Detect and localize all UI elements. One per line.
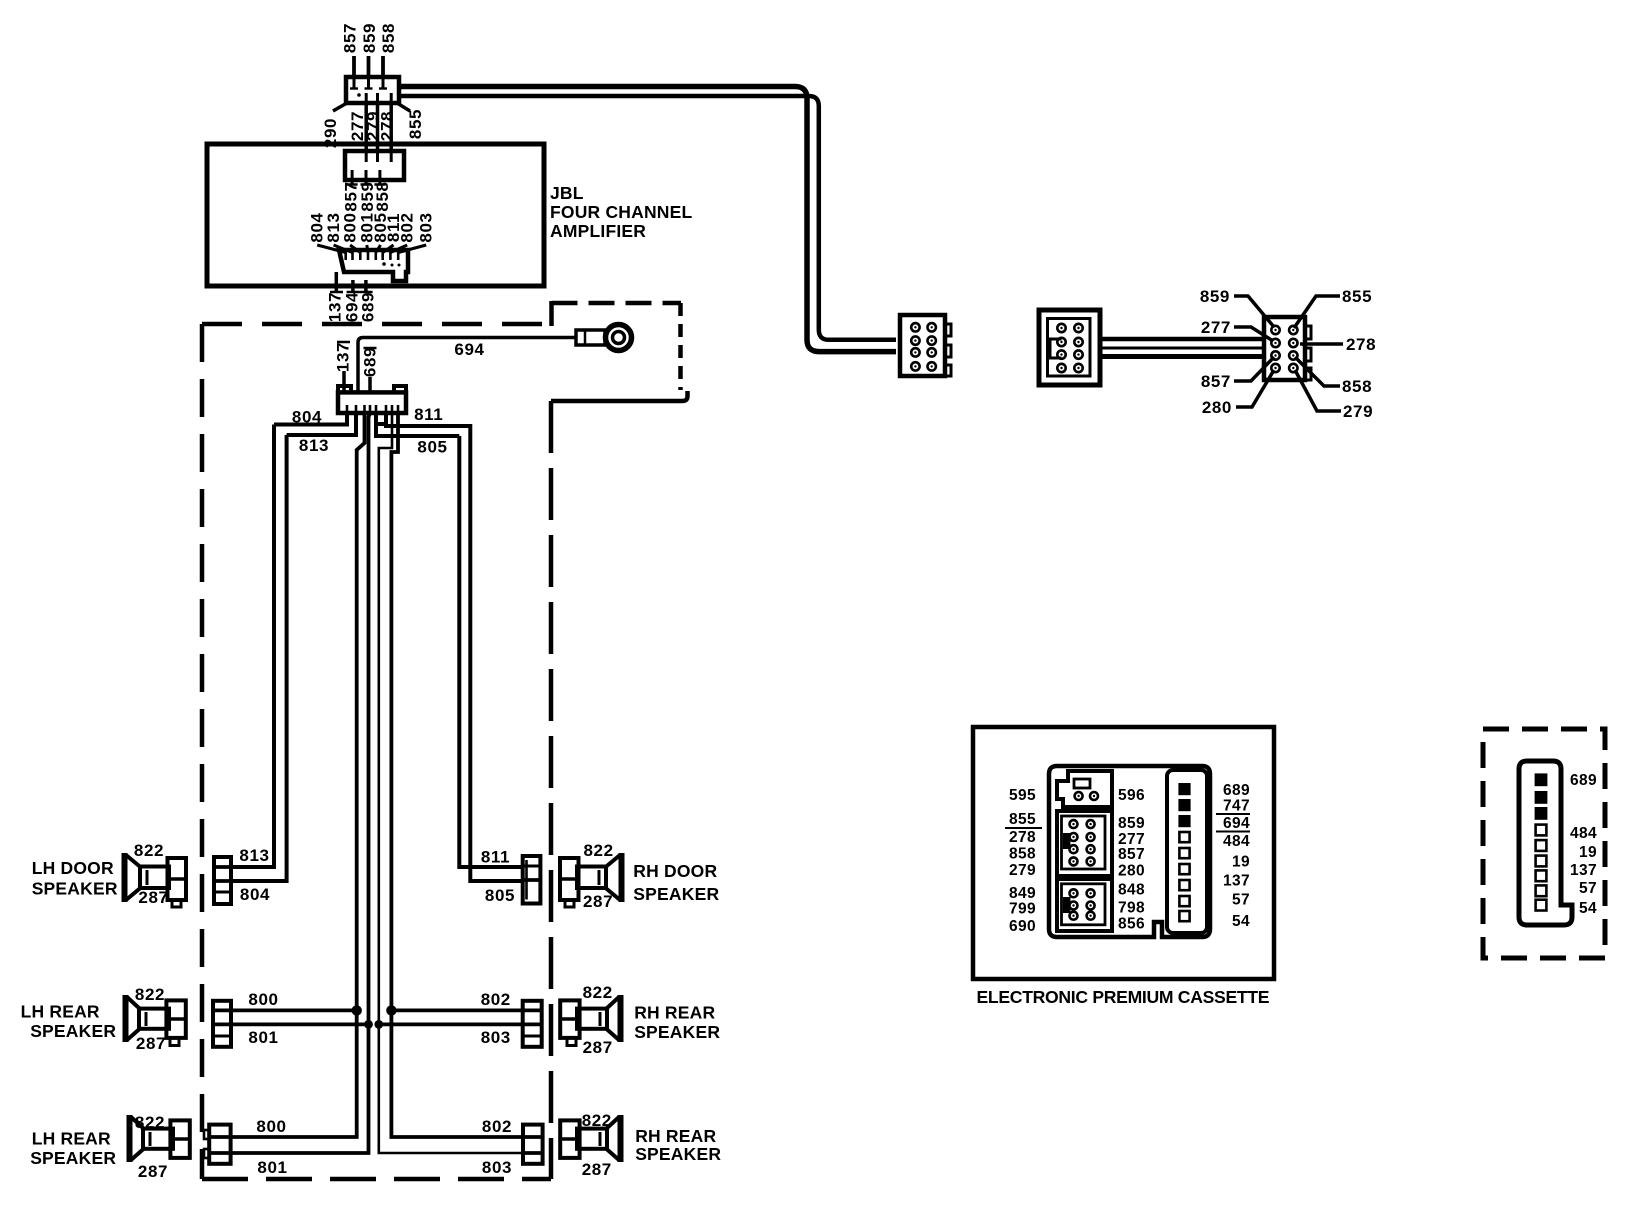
svg-text:RH DOOR: RH DOOR [633, 861, 717, 881]
connector C2 (male 8-pin, cable end) [900, 315, 951, 376]
leader 858 to C4 pin [1295, 357, 1340, 386]
pin stub 694 below C6 [347, 280, 360, 292]
svg-text:54: 54 [1579, 900, 1597, 917]
wire 803 middle-row branch [379, 1023, 523, 1027]
svg-text:484: 484 [1223, 833, 1250, 850]
svg-text:822: 822 [583, 983, 613, 1002]
wire 694 from C7 to ring terminal [358, 338, 576, 393]
leader 805 to C6 [376, 245, 381, 253]
harness connector at RH rear speaker (bottom) [523, 1125, 543, 1164]
leader 803 to C6 [398, 245, 426, 253]
svg-text:SPEAKER: SPEAKER [634, 1022, 720, 1042]
junction dot 801 [364, 1020, 373, 1029]
shielded cable run (outer conductor) from C1 to C2 [399, 87, 896, 352]
svg-text:JBL: JBL [550, 183, 584, 203]
svg-text:SPEAKER: SPEAKER [30, 1021, 116, 1041]
shielded cable run (inner conductor) from C1 to C2 [399, 96, 896, 340]
svg-text:57: 57 [1579, 880, 1597, 897]
svg-text:802: 802 [481, 990, 511, 1009]
connector C5 (amplifier top connector) [345, 151, 404, 180]
leader 811 to C6 [383, 245, 394, 253]
wire 804 (C7 to LH door speaker) [231, 413, 347, 867]
svg-text:277: 277 [1201, 318, 1231, 337]
LH rear speaker symbol (middle row) [126, 995, 186, 1046]
svg-text:689: 689 [1570, 772, 1597, 789]
pin stub 689 below C6 [360, 280, 373, 292]
harness notch: right dashed edge [678, 303, 683, 390]
svg-text:689: 689 [1223, 782, 1250, 799]
svg-text:279: 279 [1009, 862, 1036, 879]
svg-text:SPEAKER: SPEAKER [32, 879, 118, 899]
ring terminal crimp [576, 330, 605, 345]
pin stub 858 below C5 [374, 180, 385, 185]
leader to label 855 [397, 103, 410, 111]
svg-text:694: 694 [454, 340, 484, 359]
harness connector at RH door speaker [523, 856, 541, 904]
svg-text:804: 804 [240, 885, 270, 904]
text LH REAR SPEAKER (bottom) [30, 1129, 116, 1169]
cassette middle connector (8-pin) [1057, 811, 1112, 876]
connector C4 (male 8-pin, cable end) [1264, 317, 1311, 380]
text LH REAR SPEAKER (middle) [21, 1002, 117, 1042]
RH rear speaker symbol (middle row) [560, 995, 620, 1046]
leader 859 to C4 pin [1234, 296, 1274, 327]
svg-text:822: 822 [134, 841, 164, 860]
svg-text:799: 799 [1009, 901, 1036, 918]
svg-text:822: 822 [582, 1111, 612, 1130]
svg-text:856: 856 [1118, 916, 1145, 933]
svg-text:SPEAKER: SPEAKER [30, 1148, 116, 1168]
harness notch: top dashed edge [552, 301, 682, 306]
svg-text:859: 859 [1118, 815, 1145, 832]
svg-text:802: 802 [398, 212, 417, 242]
pin lead 278 (C1 to C5) [389, 103, 393, 151]
wire 857 pin lead [352, 56, 356, 78]
leader 800 to C6 [350, 245, 360, 253]
underline 747 [1216, 813, 1250, 815]
harness boundary: bottom edge [202, 1177, 551, 1182]
svg-text:822: 822 [135, 985, 165, 1004]
svg-text:858: 858 [1342, 377, 1372, 396]
svg-text:54: 54 [1232, 913, 1250, 930]
electronic premium cassette box [973, 727, 1274, 979]
svg-text:280: 280 [1202, 398, 1232, 417]
leader 279 to C4 pin [1295, 370, 1341, 411]
junction dot 802 [386, 1005, 396, 1015]
svg-text:747: 747 [1223, 798, 1250, 815]
svg-text:RH REAR: RH REAR [634, 1003, 715, 1023]
RH rear speaker symbol (bottom row) [560, 1115, 620, 1162]
svg-text:689: 689 [359, 292, 378, 322]
junction dot 803 [374, 1020, 383, 1029]
leader 857 to C4 pin [1234, 357, 1274, 381]
svg-text:ELECTRONIC PREMIUM CASSETTE: ELECTRONIC PREMIUM CASSETTE [977, 987, 1270, 1007]
svg-text:287: 287 [583, 892, 613, 911]
svg-text:803: 803 [482, 1158, 512, 1177]
cassette connector housing [1049, 766, 1210, 937]
svg-text:484: 484 [1570, 825, 1597, 842]
svg-text:279: 279 [1343, 402, 1373, 421]
svg-text:822: 822 [584, 841, 614, 860]
svg-text:LH REAR: LH REAR [21, 1002, 100, 1022]
amplifier name text [550, 183, 693, 241]
svg-text:287: 287 [138, 888, 168, 907]
cable C3 to C4 (three conductors) [1100, 339, 1264, 357]
svg-text:694: 694 [1223, 815, 1250, 832]
svg-text:287: 287 [582, 1160, 612, 1179]
cassette bottom connector (6-pin) [1057, 879, 1112, 931]
pin lead 279 (C1 to C5) [376, 103, 380, 151]
pin stub 859 below C5 [361, 180, 372, 185]
wire 858 pin lead [381, 56, 385, 78]
svg-text:805: 805 [485, 886, 515, 905]
leader 802 to C6 [390, 245, 407, 253]
leader 280 to C4 pin [1236, 370, 1274, 407]
leader 813 to C6 [334, 245, 353, 253]
svg-text:813: 813 [239, 846, 269, 865]
svg-text:689: 689 [360, 347, 379, 377]
LH door speaker symbol [125, 853, 187, 907]
svg-text:SPEAKER: SPEAKER [633, 884, 719, 904]
wire 859 pin lead [367, 56, 371, 78]
svg-text:595: 595 [1009, 787, 1036, 804]
wire 805 (C7 to RH door speaker) [376, 413, 523, 867]
wire 801 vertical (C7 to rear speakers) [231, 413, 370, 1153]
underline 855 [1005, 827, 1042, 829]
svg-text:137: 137 [334, 342, 353, 372]
svg-text:19: 19 [1579, 844, 1597, 861]
text LH DOOR SPEAKER [32, 858, 118, 899]
auxiliary edge connector [1519, 761, 1572, 925]
pin stub 857 below C5 [347, 180, 358, 185]
wire 137 stub into C7 [337, 342, 350, 392]
leader 804 to C6 [317, 245, 346, 253]
svg-text:859: 859 [1200, 287, 1230, 306]
svg-text:596: 596 [1118, 787, 1145, 804]
svg-text:804: 804 [292, 408, 322, 427]
svg-text:800: 800 [256, 1117, 286, 1136]
svg-text:858: 858 [379, 23, 398, 53]
pin stub 137 below C6 [330, 272, 343, 292]
harness notch: solid left riser [549, 301, 554, 326]
svg-text:855: 855 [1342, 287, 1372, 306]
svg-text:811: 811 [481, 848, 510, 867]
svg-text:801: 801 [248, 1028, 278, 1047]
svg-text:FOUR CHANNEL: FOUR CHANNEL [550, 202, 693, 222]
svg-text:849: 849 [1009, 885, 1036, 902]
svg-text:857: 857 [1201, 372, 1231, 391]
wire 800 vertical (C7 to rear speakers) [231, 413, 365, 1137]
wire 689 stub into C7 [364, 348, 377, 392]
harness connector at LH door speaker [214, 857, 231, 904]
wire 803 vertical (C7 to rear speakers) [379, 413, 523, 1153]
connector C1 (cable end at amplifier) [346, 77, 399, 103]
leader 801 to C6 [367, 245, 368, 253]
svg-text:287: 287 [583, 1038, 613, 1057]
leader 278 to C4 pin [1300, 342, 1343, 346]
svg-text:859: 859 [360, 23, 379, 53]
connector C3 (female 8-pin radio side) [1039, 310, 1100, 385]
svg-text:LH DOOR: LH DOOR [32, 858, 114, 878]
in-line connector C7 [338, 386, 406, 413]
harness connector at LH rear speaker (middle) [213, 1001, 231, 1047]
leader 855 to C4 pin [1294, 296, 1340, 328]
svg-text:287: 287 [136, 1034, 166, 1053]
svg-text:855: 855 [406, 109, 425, 139]
svg-text:803: 803 [417, 212, 436, 242]
svg-text:278: 278 [378, 111, 397, 141]
svg-text:SPEAKER: SPEAKER [635, 1144, 721, 1164]
wire 800 middle-row branch [231, 1009, 357, 1013]
wire 802 middle-row branch [391, 1009, 522, 1013]
svg-text:800: 800 [248, 990, 278, 1009]
svg-text:857: 857 [340, 23, 359, 53]
svg-text:798: 798 [1118, 900, 1145, 917]
svg-text:RH REAR: RH REAR [635, 1126, 716, 1146]
harness boundary: right edge [549, 401, 554, 1179]
leader 277 to C4 pin [1234, 327, 1273, 341]
svg-text:857: 857 [1118, 846, 1145, 863]
svg-text:137: 137 [1570, 862, 1597, 879]
svg-text:802: 802 [482, 1117, 512, 1136]
RH door speaker symbol [560, 853, 622, 907]
svg-text:858: 858 [373, 181, 392, 211]
cassette edge connector (tall) [1167, 770, 1207, 933]
connector C6 (amplifier bottom connector) [339, 250, 408, 281]
svg-text:LH REAR: LH REAR [32, 1129, 111, 1149]
harness notch: bottom solid edge [551, 391, 688, 401]
svg-text:805: 805 [417, 438, 447, 457]
svg-text:278: 278 [1009, 829, 1036, 846]
svg-text:811: 811 [414, 405, 443, 424]
text RH DOOR SPEAKER [633, 861, 719, 904]
harness connector at RH rear speaker (middle) [523, 1001, 542, 1047]
harness connector at LH rear speaker (bottom) [204, 1125, 231, 1164]
svg-text:822: 822 [135, 1113, 165, 1132]
svg-text:57: 57 [1232, 892, 1250, 909]
harness boundary: left edge [200, 324, 205, 1179]
ring terminal eyelet 694 [606, 325, 632, 351]
leader to label 290 [333, 103, 347, 111]
svg-text:280: 280 [1118, 863, 1145, 880]
pin lead 277 (C1 to C5) [364, 103, 368, 151]
svg-text:AMPLIFIER: AMPLIFIER [550, 221, 646, 241]
wire 801 middle-row branch [231, 1023, 369, 1027]
underline 694 [1216, 831, 1250, 833]
svg-text:801: 801 [257, 1158, 287, 1177]
JBL four channel amplifier box [207, 144, 544, 286]
svg-text:278: 278 [1346, 335, 1376, 354]
svg-text:137: 137 [1223, 873, 1250, 890]
wire 802 vertical (C7 to rear speakers) [391, 413, 523, 1137]
cassette top connector (595/596) [1057, 771, 1112, 807]
harness boundary dashed box: top edge [202, 322, 550, 327]
text RH REAR SPEAKER (bottom) [635, 1126, 721, 1164]
text RH REAR SPEAKER (middle) [634, 1003, 720, 1042]
svg-text:19: 19 [1232, 854, 1250, 871]
svg-text:813: 813 [299, 436, 329, 455]
svg-text:855: 855 [1009, 811, 1036, 828]
svg-text:858: 858 [1009, 846, 1036, 863]
wire 813 (C7 to LH door speaker) [231, 413, 356, 881]
LH rear speaker symbol (bottom row) [130, 1115, 190, 1162]
wire 811 (C7 to RH door speaker) [376, 413, 523, 881]
svg-text:803: 803 [481, 1028, 511, 1047]
svg-text:690: 690 [1009, 918, 1036, 935]
svg-text:848: 848 [1118, 882, 1145, 899]
junction dot 800 [352, 1005, 362, 1015]
svg-text:287: 287 [138, 1162, 168, 1181]
auxiliary connector dashed box [1483, 729, 1605, 958]
